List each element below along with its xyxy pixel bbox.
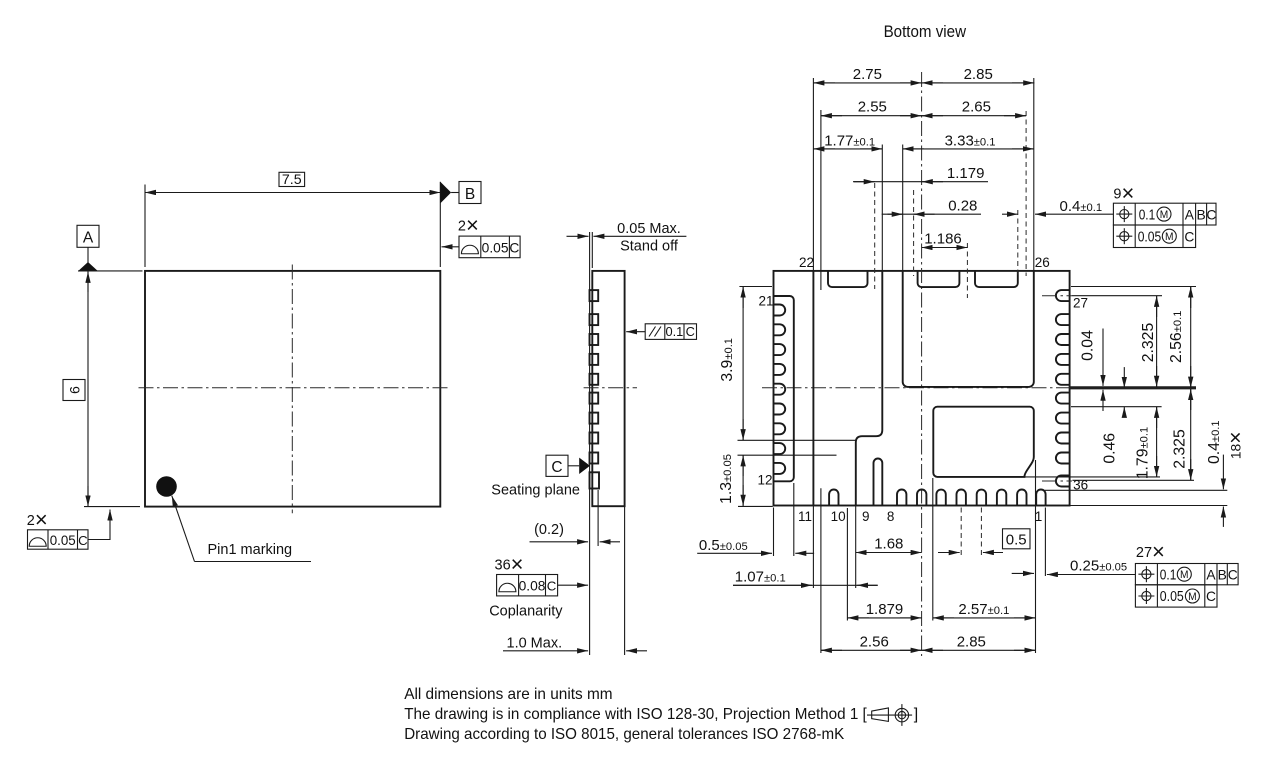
svg-text:2.75: 2.75 bbox=[853, 66, 882, 83]
svg-text:0.1: 0.1 bbox=[666, 324, 684, 339]
feature control frame profile 0.05 C bottom-left bbox=[28, 510, 111, 550]
top pad 25 bbox=[975, 271, 1018, 287]
position frame 0.05 M C top right bbox=[1113, 225, 1195, 248]
dimension 2.85 bottom bbox=[922, 634, 1036, 651]
svg-text:Seating plane: Seating plane bbox=[491, 483, 580, 499]
dimension 0.05 Max stand off bbox=[567, 221, 687, 268]
svg-text:6: 6 bbox=[68, 386, 84, 394]
svg-text:2.55: 2.55 bbox=[858, 99, 887, 116]
left extension lines bottom view bbox=[738, 287, 856, 507]
datum A bbox=[77, 225, 143, 271]
exposed pad lower right with chamfer bbox=[933, 407, 1034, 477]
svg-text:Coplanarity: Coplanarity bbox=[489, 603, 563, 619]
dimension 2.85 top bbox=[922, 66, 1035, 83]
svg-text:2.85: 2.85 bbox=[964, 66, 993, 83]
position frame 0.1 M ABC bottom right bbox=[1135, 564, 1238, 585]
svg-text:0.46: 0.46 bbox=[1101, 433, 1118, 464]
internal pad edge line 22 bbox=[812, 271, 814, 506]
dimension 1.79 +/-0.1 bbox=[1134, 407, 1156, 480]
svg-text:C: C bbox=[686, 324, 695, 339]
svg-text:0.1: 0.1 bbox=[1139, 207, 1156, 223]
svg-text:Bottom view: Bottom view bbox=[884, 22, 967, 41]
dimension 2.65 bbox=[922, 99, 1027, 116]
dimension 0.5 pitch boxed bbox=[938, 529, 1030, 553]
dimension 1.77 +/-0.1 bbox=[813, 132, 882, 149]
dimension 7.5 extension lines bbox=[145, 182, 440, 267]
dimension 0.4 +/-0.1 9x bbox=[1002, 198, 1113, 215]
internal pad edge with jog pin 9 bbox=[856, 271, 883, 506]
vertical centerline top view bbox=[291, 265, 293, 514]
pin labels bottom view bbox=[757, 255, 1088, 524]
dimension 2.57 +/-0.1 bbox=[933, 601, 1036, 618]
horizontal centerline top view bbox=[139, 387, 448, 389]
svg-text:2.325: 2.325 bbox=[1140, 323, 1157, 363]
svg-text:C: C bbox=[551, 459, 562, 476]
svg-text:1.179: 1.179 bbox=[947, 165, 985, 182]
dimension 6 bbox=[63, 272, 140, 507]
package body outline side view bbox=[592, 271, 624, 506]
feature control frame profile 0.05 C right bbox=[442, 236, 521, 258]
svg-text:0.28: 0.28 bbox=[948, 198, 977, 215]
side view pins bbox=[590, 290, 599, 463]
svg-text:Pin1 marking: Pin1 marking bbox=[208, 542, 293, 558]
footer notes bbox=[404, 686, 918, 743]
extension lines above bottom view bbox=[813, 78, 1033, 298]
dimension 0.28 bbox=[882, 198, 981, 215]
dimension 1.3 +/-0.05 bbox=[718, 454, 743, 506]
bottom view horizontal centerline bbox=[762, 387, 1070, 389]
position frame 0.1 M ABC top right bbox=[1113, 203, 1216, 225]
elongated slot pin 8 bbox=[874, 459, 883, 506]
svg-text:All dimensions are in units mm: All dimensions are in units mm bbox=[404, 686, 612, 703]
svg-text:M: M bbox=[1188, 591, 1197, 603]
svg-text:M: M bbox=[1165, 231, 1174, 243]
svg-text:10: 10 bbox=[831, 509, 846, 524]
side view exposed pad tab bbox=[590, 472, 600, 488]
dimension 1.0 Max package height bbox=[503, 506, 647, 655]
svg-text:C: C bbox=[1184, 229, 1194, 244]
svg-text:0.05: 0.05 bbox=[50, 533, 76, 548]
svg-text:A: A bbox=[1185, 207, 1195, 222]
svg-text:C: C bbox=[1206, 589, 1216, 604]
svg-text:1.186: 1.186 bbox=[924, 230, 962, 247]
feature control frame coplanarity 0.08 C bbox=[489, 575, 588, 620]
side view centerline bbox=[584, 387, 637, 389]
dimension 1.879 bbox=[847, 601, 921, 618]
dimension 1.179 bbox=[853, 165, 988, 182]
dimension 1.68 bbox=[856, 536, 922, 553]
first angle projection symbol bbox=[867, 704, 912, 726]
dimension 0.4 +/-0.1 18x right bbox=[1206, 420, 1248, 527]
svg-text:0.5: 0.5 bbox=[1006, 531, 1027, 548]
svg-text:36: 36 bbox=[1073, 477, 1088, 492]
svg-text:Stand off: Stand off bbox=[620, 239, 679, 255]
dimension 1.07 +/-0.1 bbox=[733, 568, 878, 585]
svg-text:]: ] bbox=[914, 706, 918, 723]
dimension 2.56 bottom bbox=[821, 634, 922, 651]
svg-text:Drawing according to ISO 8015,: Drawing according to ISO 8015, general t… bbox=[404, 726, 844, 743]
exposed pad upper right bbox=[903, 271, 1034, 387]
dimension 3.9 +/-0.1 bbox=[719, 287, 743, 441]
position frame 0.05 M C bottom right bbox=[1135, 585, 1217, 607]
svg-text:22: 22 bbox=[799, 255, 814, 270]
svg-text:M: M bbox=[1160, 209, 1169, 221]
left pins 12-21 bbox=[774, 305, 786, 474]
dimension 7.5 bbox=[145, 172, 440, 193]
svg-text:0.05: 0.05 bbox=[1160, 589, 1184, 605]
pin1 marking leader and label bbox=[172, 496, 311, 562]
bottom view vertical centerline bbox=[921, 72, 923, 656]
datum C seating plane bbox=[491, 455, 590, 499]
left pin field rounded outline bbox=[774, 296, 794, 481]
parallelism frame 0.1 C bbox=[626, 324, 696, 340]
bottom extension lines bbox=[774, 460, 1046, 653]
dimension 0.46 bbox=[1101, 367, 1124, 464]
package body outline top view bbox=[145, 271, 440, 507]
dimension 0.5 +/-0.05 bbox=[697, 537, 814, 554]
dimension 2.325 lower bbox=[1172, 389, 1191, 480]
dimension 2.56 +/-0.1 right bbox=[1168, 287, 1191, 388]
svg-text:0.05: 0.05 bbox=[482, 240, 509, 255]
svg-text:12: 12 bbox=[757, 472, 772, 487]
right pins 27-36 bbox=[1056, 290, 1070, 486]
svg-text:0.1: 0.1 bbox=[1160, 568, 1177, 584]
seating plane line side view bbox=[589, 232, 591, 655]
svg-text:C: C bbox=[509, 240, 519, 255]
svg-text:0.04: 0.04 bbox=[1079, 330, 1096, 361]
svg-text:B: B bbox=[1196, 207, 1205, 222]
svg-text:26: 26 bbox=[1035, 255, 1050, 270]
svg-text:A: A bbox=[83, 230, 94, 247]
dimension 2.325 upper bbox=[1140, 296, 1157, 387]
svg-text:1.0 Max.: 1.0 Max. bbox=[507, 635, 563, 651]
top pad 23 bbox=[828, 271, 868, 287]
bottom pins 1-10 bbox=[829, 490, 1046, 506]
svg-text:21: 21 bbox=[758, 293, 773, 308]
svg-text:8: 8 bbox=[887, 509, 895, 524]
svg-text:7.5: 7.5 bbox=[282, 172, 302, 188]
svg-text:0.05 Max.: 0.05 Max. bbox=[617, 221, 681, 237]
svg-text:0.05: 0.05 bbox=[1138, 229, 1162, 245]
top pad 24 bbox=[918, 271, 960, 287]
svg-text:A: A bbox=[1206, 568, 1216, 583]
svg-text:1.879: 1.879 bbox=[866, 601, 904, 618]
dimension 2.75 bbox=[813, 66, 921, 83]
dimension 3.33 +/-0.1 bbox=[903, 132, 1034, 149]
svg-text:The drawing is in compliance w: The drawing is in compliance with ISO 12… bbox=[404, 706, 867, 723]
svg-text:9: 9 bbox=[862, 509, 870, 524]
right side extension lines bbox=[1024, 287, 1227, 506]
svg-text:C: C bbox=[547, 578, 557, 593]
pin1 marking dot bbox=[156, 476, 177, 497]
svg-text:(0.2): (0.2) bbox=[534, 522, 564, 538]
svg-text:0.08: 0.08 bbox=[519, 578, 546, 593]
svg-text:27: 27 bbox=[1073, 296, 1088, 311]
svg-text:1: 1 bbox=[1035, 509, 1043, 524]
svg-text:1.68: 1.68 bbox=[874, 536, 903, 553]
svg-text:2.85: 2.85 bbox=[957, 634, 986, 651]
svg-text:B: B bbox=[465, 186, 475, 203]
dimension 2.55 bbox=[821, 99, 922, 116]
svg-text:2.325: 2.325 bbox=[1172, 429, 1189, 469]
svg-text:2.65: 2.65 bbox=[962, 99, 991, 116]
svg-text:2.56: 2.56 bbox=[860, 634, 889, 651]
svg-text:C: C bbox=[1206, 207, 1216, 222]
package body outline bottom view bbox=[774, 271, 1070, 506]
dimension 0.25 +/-0.05 bbox=[1012, 557, 1136, 574]
dimension 0.04 bbox=[1079, 329, 1103, 412]
dimension (0.2) bbox=[530, 490, 621, 546]
svg-text:B: B bbox=[1218, 568, 1227, 583]
svg-text:11: 11 bbox=[798, 509, 812, 524]
datum B bbox=[440, 182, 481, 204]
svg-text:M: M bbox=[1180, 569, 1189, 581]
svg-text:C: C bbox=[78, 533, 88, 548]
dimension 1.186 bbox=[922, 230, 968, 247]
svg-text:C: C bbox=[1228, 568, 1238, 583]
